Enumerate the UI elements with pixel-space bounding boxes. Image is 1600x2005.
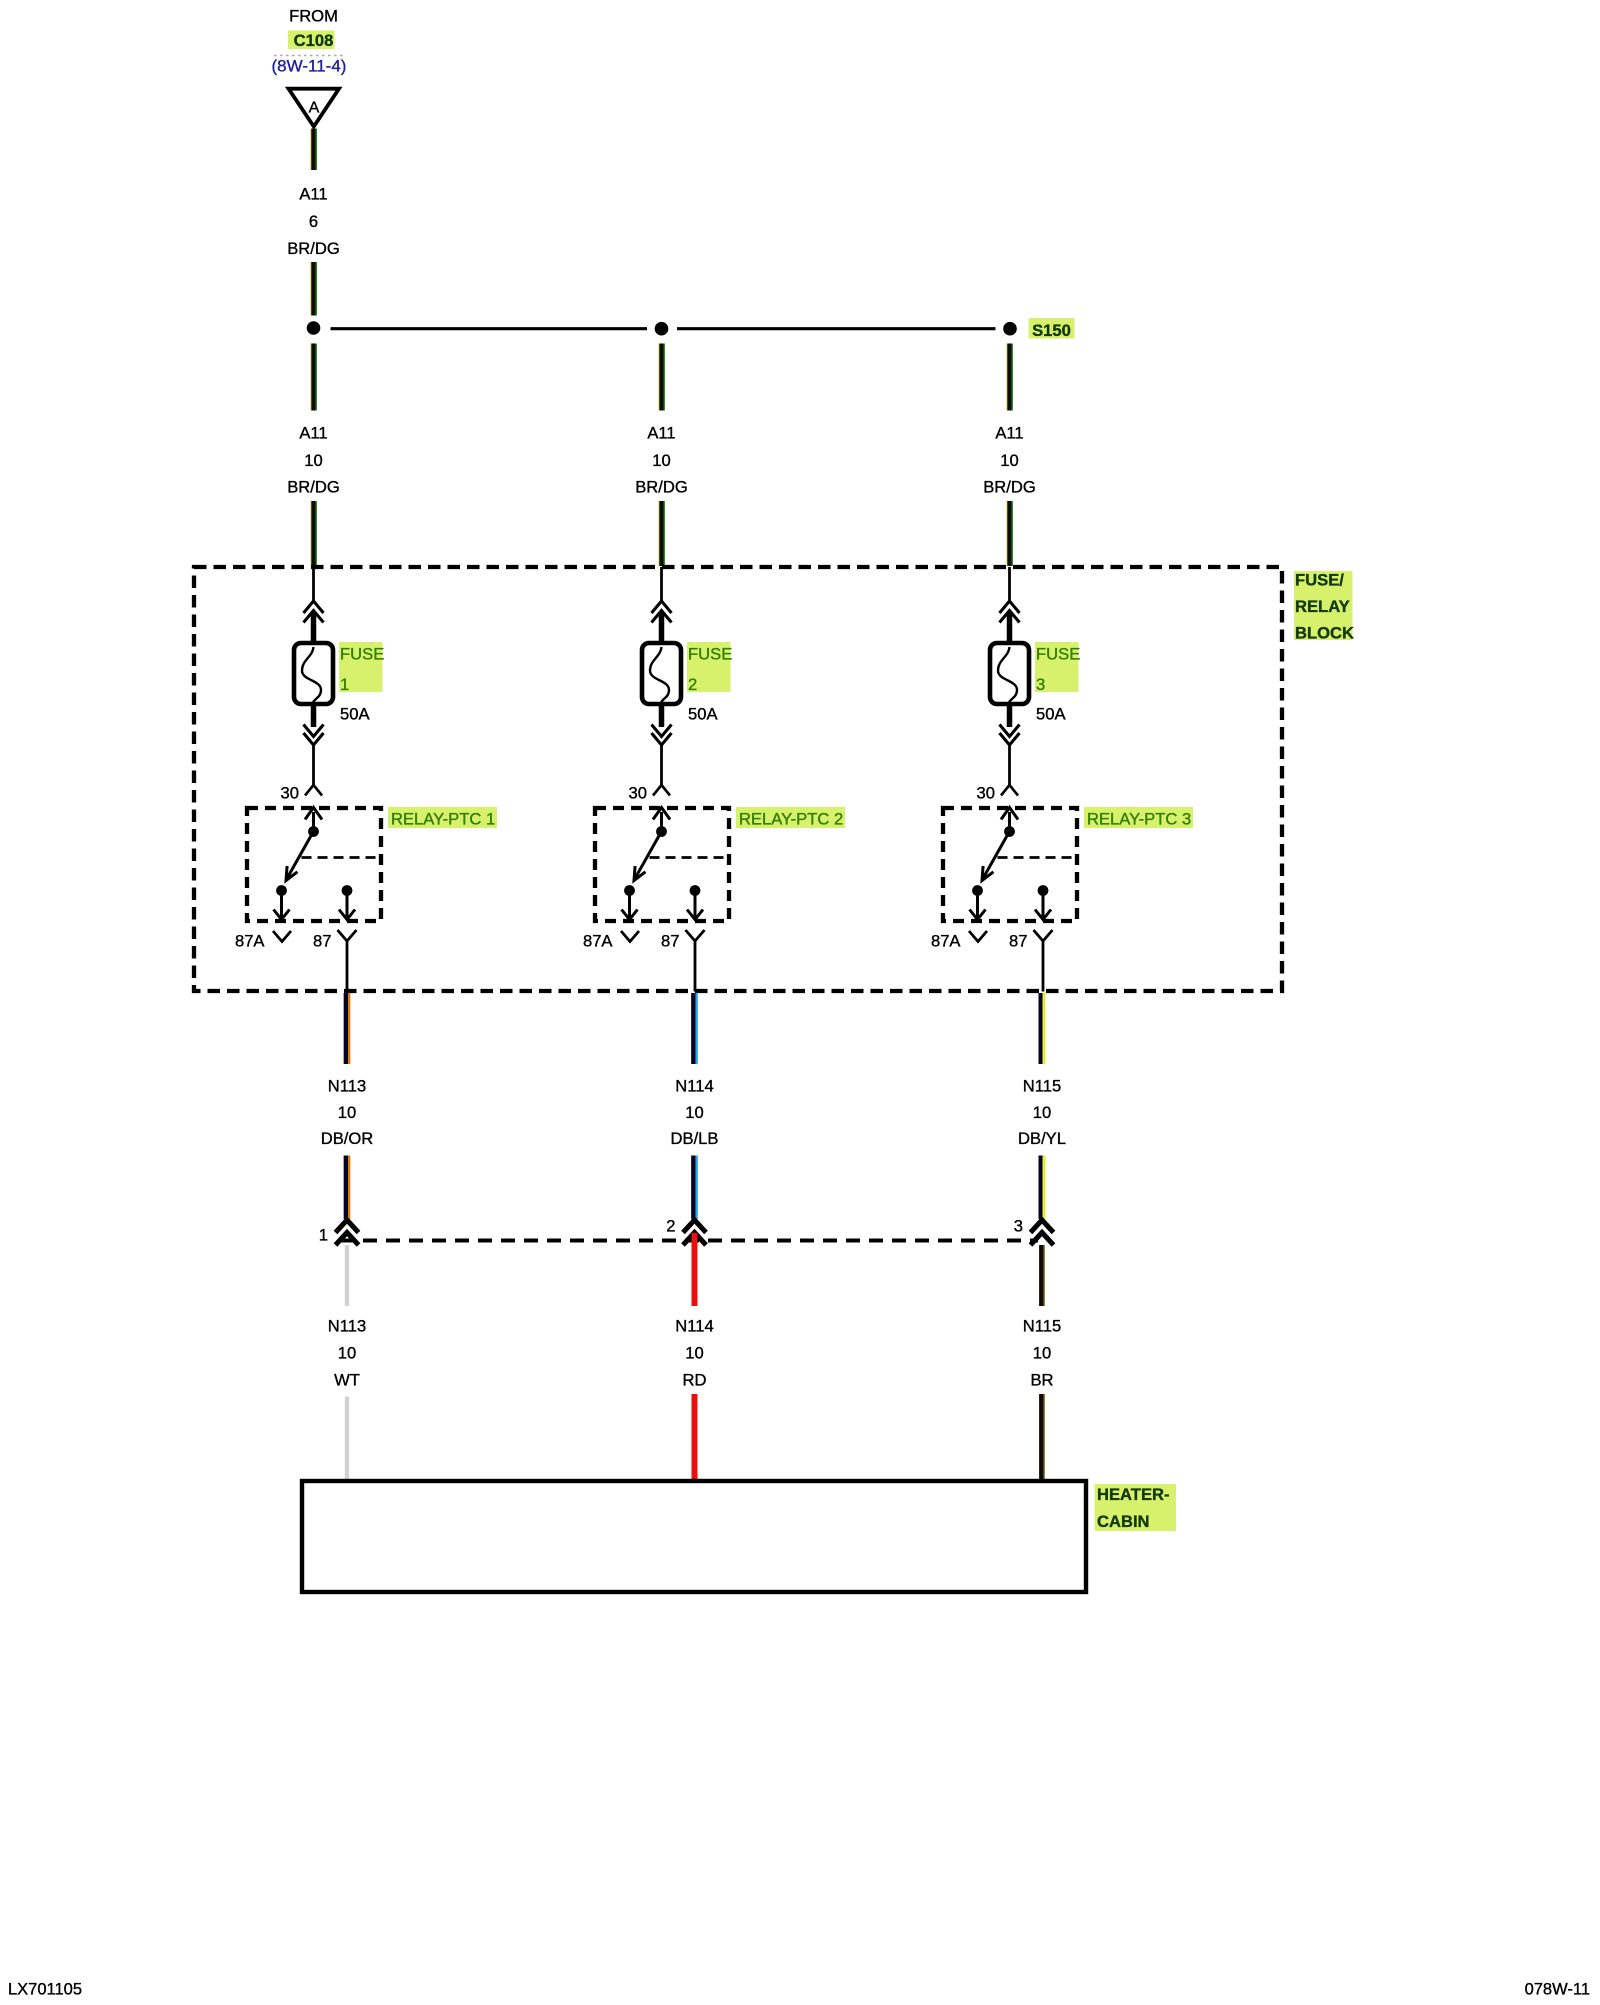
svg-text:FUSE: FUSE (688, 645, 732, 664)
svg-text:HEATER-: HEATER- (1097, 1485, 1170, 1504)
svg-text:FUSE: FUSE (1036, 645, 1080, 664)
svg-text:50A: 50A (688, 705, 718, 724)
svg-text:30: 30 (281, 784, 299, 803)
svg-text:BR: BR (1030, 1371, 1053, 1390)
svg-text:30: 30 (977, 784, 995, 803)
svg-text:BR/DG: BR/DG (287, 478, 340, 497)
svg-text:10: 10 (1033, 1103, 1051, 1122)
svg-text:A11: A11 (647, 424, 675, 443)
svg-text:10: 10 (304, 451, 322, 470)
svg-text:DB/LB: DB/LB (671, 1129, 719, 1148)
svg-text:RELAY-PTC 1: RELAY-PTC 1 (391, 810, 495, 829)
svg-text:10: 10 (338, 1103, 356, 1122)
svg-text:DB/OR: DB/OR (321, 1129, 374, 1148)
svg-text:1: 1 (319, 1226, 328, 1245)
svg-text:S150: S150 (1032, 321, 1071, 340)
svg-text:10: 10 (685, 1344, 703, 1363)
svg-text:C108: C108 (294, 31, 334, 50)
svg-text:3: 3 (1014, 1217, 1023, 1236)
svg-text:CABIN: CABIN (1097, 1512, 1150, 1531)
svg-text:6: 6 (309, 212, 318, 231)
svg-text:BR/DG: BR/DG (287, 239, 340, 258)
svg-text:LX701105: LX701105 (8, 1981, 82, 1999)
svg-text:A11: A11 (995, 424, 1023, 443)
svg-text:N113: N113 (328, 1317, 366, 1336)
svg-text:87: 87 (1009, 932, 1027, 951)
svg-text:1: 1 (340, 675, 349, 694)
svg-text:10: 10 (1000, 451, 1018, 470)
svg-text:87: 87 (661, 932, 679, 951)
svg-text:(8W-11-4): (8W-11-4) (272, 57, 347, 76)
svg-text:BLOCK: BLOCK (1295, 624, 1354, 643)
svg-text:10: 10 (338, 1344, 356, 1363)
svg-text:RELAY: RELAY (1295, 597, 1350, 616)
svg-text:FROM: FROM (289, 7, 338, 26)
svg-text:87: 87 (313, 932, 331, 951)
svg-text:87A: 87A (583, 932, 613, 951)
svg-text:2: 2 (666, 1217, 675, 1236)
svg-text:10: 10 (652, 451, 670, 470)
svg-text:FUSE/: FUSE/ (1295, 571, 1344, 590)
svg-text:87A: 87A (235, 932, 265, 951)
svg-text:A11: A11 (299, 424, 327, 443)
svg-text:BR/DG: BR/DG (983, 478, 1036, 497)
svg-text:87A: 87A (931, 932, 961, 951)
svg-text:WT: WT (334, 1371, 360, 1390)
svg-text:50A: 50A (1036, 705, 1066, 724)
svg-text:N114: N114 (675, 1317, 713, 1336)
svg-text:RELAY-PTC 2: RELAY-PTC 2 (739, 810, 843, 829)
svg-text:A11: A11 (299, 185, 327, 204)
svg-text:N114: N114 (675, 1077, 713, 1096)
svg-text:30: 30 (629, 784, 647, 803)
svg-text:N113: N113 (328, 1077, 366, 1096)
svg-text:N115: N115 (1023, 1077, 1061, 1096)
svg-text:A: A (309, 100, 320, 117)
svg-text:50A: 50A (340, 705, 370, 724)
svg-text:10: 10 (685, 1103, 703, 1122)
svg-text:2: 2 (688, 675, 697, 694)
svg-text:10: 10 (1033, 1344, 1051, 1363)
svg-text:RELAY-PTC 3: RELAY-PTC 3 (1087, 810, 1191, 829)
svg-text:FUSE: FUSE (340, 645, 384, 664)
svg-text:3: 3 (1036, 675, 1045, 694)
svg-text:N115: N115 (1023, 1317, 1061, 1336)
svg-text:RD: RD (683, 1371, 707, 1390)
svg-text:BR/DG: BR/DG (635, 478, 688, 497)
svg-text:078W-11: 078W-11 (1525, 1981, 1590, 1999)
svg-text:DB/YL: DB/YL (1018, 1129, 1066, 1148)
